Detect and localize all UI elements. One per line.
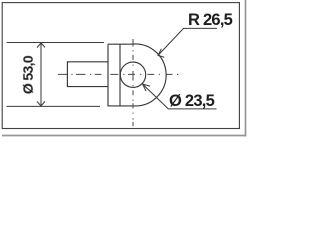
- arrowhead down: [37, 101, 45, 106]
- bore circle Ø23,5: [120, 62, 145, 87]
- leader line R26,5: [158, 28, 217, 55]
- dimension line Ø53: [40, 43, 42, 106]
- disc right edge: [119, 44, 121, 106]
- leader line Ø23,5: [143, 84, 217, 109]
- page shadow right edge: [245, 0, 247, 137]
- drawing frame border: [2, 3, 239, 129]
- svg-text:Ø 23,5: Ø 23,5: [169, 92, 215, 110]
- shaft outline (side view): [67, 62, 108, 87]
- arrowhead up: [37, 43, 45, 48]
- svg-text:Ø 53,0: Ø 53,0: [21, 55, 37, 94]
- extension line top: [7, 42, 105, 44]
- disc top edge: [108, 43, 133, 45]
- disc left edge: [107, 44, 109, 106]
- svg-text:R 26,5: R 26,5: [188, 11, 233, 29]
- extension line bottom: [7, 105, 101, 107]
- horizontal centerline: [58, 73, 178, 75]
- head outer arc R26,5: [133, 44, 166, 106]
- vertical centerline: [132, 39, 134, 126]
- disc bottom edge: [108, 105, 138, 107]
- leader arrowhead Ø23,5: [143, 84, 150, 91]
- leader arrowhead R26,5: [158, 49, 164, 58]
- page shadow bottom edge: [2, 135, 246, 137]
